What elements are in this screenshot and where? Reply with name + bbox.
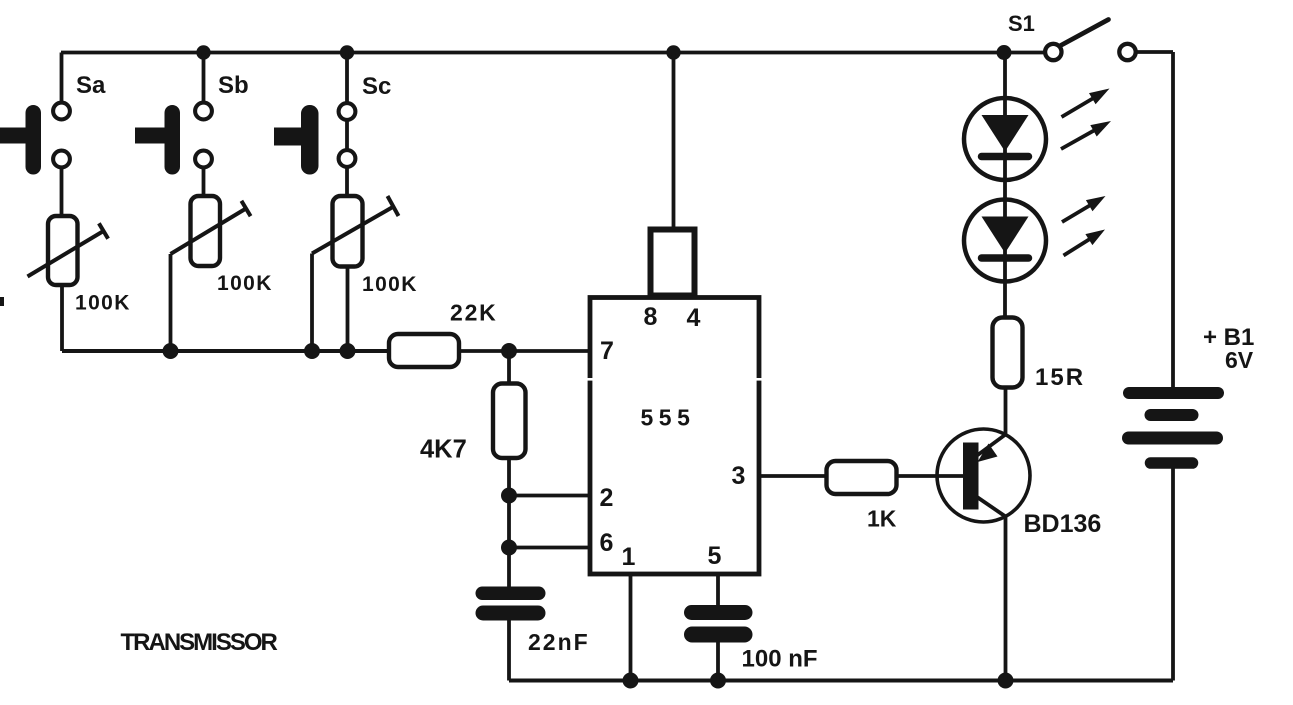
svg-text:TRANSMISSOR: TRANSMISSOR [121, 629, 278, 656]
wire pin 5 to 100nF [716, 574, 720, 606]
wire right rail down to battery [1171, 52, 1175, 389]
wire 100nF to bottom rail [716, 641, 720, 681]
wire 22K to pin 7 [459, 349, 590, 353]
LED D2 emission arrow upper [1062, 204, 1092, 222]
wire battery to bottom rail [1171, 468, 1175, 681]
wire stub to pin 2 [509, 494, 590, 498]
switch S1 contact right [1119, 44, 1135, 60]
LED D1 triangle [982, 115, 1029, 152]
transistor Q1 emitter line [977, 435, 1006, 456]
node pin7/4K7 junction [501, 343, 517, 359]
wire Sc pot to mid rail [346, 267, 350, 352]
op-amp U1 555 body [590, 298, 759, 575]
node pin6 junction [501, 540, 517, 556]
switch Sb contact top [195, 103, 212, 120]
svg-text:8: 8 [644, 303, 658, 331]
svg-text:100K: 100K [217, 272, 273, 295]
svg-text:100K: 100K [75, 292, 131, 315]
wire Sa contact to pot [60, 169, 64, 218]
wire 1K to base [897, 474, 964, 478]
svg-text:BD136: BD136 [1024, 510, 1102, 538]
wire Sc contact to pot [345, 168, 349, 197]
node 100nF on bottom rail [710, 673, 726, 689]
LED D1 cathode bar [982, 153, 1029, 161]
wire Sc between contacts [345, 121, 349, 150]
switch Sb contact bottom [195, 151, 212, 168]
svg-text:Sa: Sa [76, 72, 106, 99]
trimpot P1 body [48, 216, 78, 285]
node Sc on top rail [340, 45, 354, 59]
svg-text:3: 3 [732, 462, 746, 490]
battery B1 plate 1 long [1129, 387, 1218, 399]
LED D1 circle [964, 98, 1046, 180]
wire pin 1 to bottom rail [629, 574, 633, 681]
wire 4K7 down to cap [507, 458, 511, 587]
switch S1 contact left [1045, 44, 1061, 60]
node collector on bottom rail [998, 673, 1014, 689]
switch Sa contact top [53, 103, 70, 120]
node Sb on top rail [196, 45, 210, 59]
wire collector to bottom rail [1004, 517, 1008, 681]
edge break left of 555 body [586, 378, 595, 381]
svg-text:7: 7 [600, 337, 614, 365]
switch Sb plunger shaft [135, 128, 166, 144]
switch Sc plunger cap [301, 105, 319, 175]
svg-text:22nF: 22nF [528, 629, 590, 655]
switch S1 lever [1060, 20, 1109, 46]
wire Sa pot to mid rail [60, 285, 64, 351]
svg-text:5: 5 [708, 542, 722, 570]
wire junction to 4K7 [507, 351, 511, 384]
resistor 15R body [993, 318, 1023, 388]
wire Sc wiper to mid rail [310, 254, 314, 352]
wire top rail (+V) [61, 51, 1045, 55]
svg-text:Sc: Sc [362, 73, 391, 100]
switch Sa plunger cap [26, 105, 42, 175]
capacitor 22nF bottom plate [476, 606, 546, 621]
svg-text:S1: S1 [1008, 11, 1035, 36]
battery B1 plate 4 short [1151, 457, 1193, 469]
switch Sa plunger shaft [0, 128, 27, 144]
svg-text:15R: 15R [1035, 364, 1085, 391]
transistor Q1 collector line [977, 497, 1006, 517]
trimpot P3 wiper tick [388, 196, 399, 216]
transistor Q1 emitter arrow [978, 444, 998, 463]
svg-text:22K: 22K [450, 300, 498, 326]
wire Sb drop [202, 53, 206, 103]
LED D1 emission arrow upper [1062, 97, 1096, 117]
node pin1 on bottom rail [623, 673, 639, 689]
wire Sb wiper to mid rail [169, 254, 173, 351]
switch Sb plunger cap [165, 105, 181, 175]
LED D2 triangle [982, 217, 1029, 254]
wire Sa drop from rail [60, 53, 64, 103]
svg-text:100K: 100K [362, 273, 418, 296]
trimpot P3 wiper arrow [312, 206, 395, 254]
wire S1 to right rail [1136, 50, 1173, 54]
edge artifact [0, 297, 4, 306]
edge break right of 555 body [755, 378, 764, 381]
capacitor 100nF top plate [684, 605, 753, 620]
switch Sc plunger shaft [274, 128, 303, 146]
battery B1 plate 2 short [1151, 409, 1193, 421]
svg-text:4K7: 4K7 [420, 436, 467, 464]
wire emitter to 15R [1004, 388, 1008, 435]
svg-text:Sb: Sb [218, 72, 249, 99]
node Sc wiper junction [304, 343, 320, 359]
capacitor 22nF top plate [476, 587, 546, 601]
resistor 4K7 body [493, 384, 526, 459]
LED D2 circle [964, 200, 1046, 282]
svg-text:4: 4 [687, 304, 701, 332]
svg-text:1K: 1K [867, 506, 897, 532]
wire Sb contact to pot [202, 169, 206, 198]
trimpot P1 wiper arrow [28, 231, 104, 277]
trimpot P2 body [191, 196, 221, 266]
trimpot P1 wiper tick [99, 223, 108, 238]
LED D1 emission arrow lower [1061, 129, 1097, 149]
node supply to IC on top rail [666, 45, 680, 59]
svg-text:555: 555 [641, 405, 696, 431]
LED D2 emission arrow lower [1064, 238, 1092, 256]
svg-text:6V: 6V [1225, 347, 1254, 373]
op-amp U1 555 supply notch [651, 230, 695, 296]
svg-text:1: 1 [622, 543, 636, 571]
capacitor 100nF bottom plate [684, 627, 753, 643]
wire top rail to IC pins 8/4 [672, 53, 676, 229]
battery B1 plate 3 long [1129, 432, 1217, 445]
trimpot P2 wiper tick [241, 201, 250, 216]
switch Sc contact top [339, 103, 356, 120]
transistor Q1 base bar [963, 443, 979, 510]
node S1 on top rail [997, 45, 1012, 60]
switch Sa contact bottom [53, 151, 70, 168]
wire pin 3 to 1K [759, 474, 827, 478]
svg-text:2: 2 [600, 484, 614, 512]
node pin2 junction [501, 488, 517, 504]
wire Sc drop [345, 53, 349, 103]
resistor 1K body [827, 461, 897, 494]
wire 22nF to bottom rail [507, 620, 511, 681]
trimpot P2 wiper arrow [171, 209, 247, 255]
LED D2 cathode bar [982, 254, 1029, 262]
trimpot P3 body [333, 196, 363, 267]
wire stub to pin 6 [509, 546, 590, 550]
svg-text:6: 6 [600, 529, 614, 557]
wire mid rail [62, 349, 390, 353]
switch Sc contact bottom [339, 150, 356, 167]
node Sc pot junction [340, 343, 356, 359]
node Sb wiper junction [163, 343, 179, 359]
wire LED chain [1003, 53, 1007, 318]
resistor 22K body [389, 334, 459, 367]
svg-text:100 nF: 100 nF [742, 646, 818, 673]
wire bottom rail (0V) [509, 679, 1173, 683]
transistor Q1 BD136 circle [937, 429, 1030, 522]
